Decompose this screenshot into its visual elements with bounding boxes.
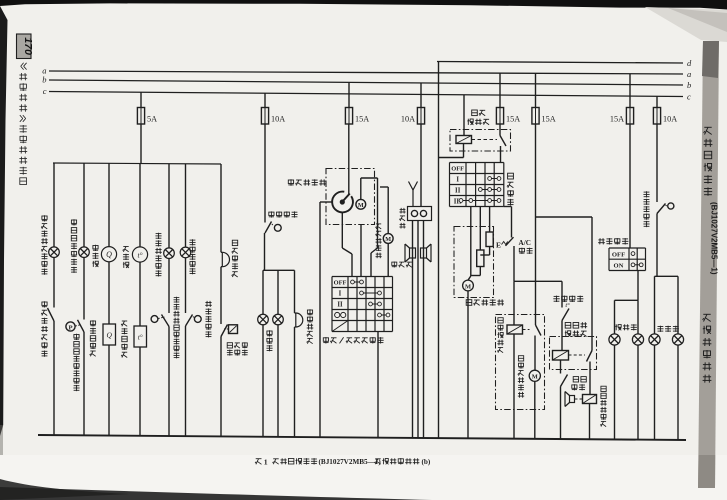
wire branch fuel gauge — [108, 163, 110, 246]
bottom page shadow — [0, 479, 130, 500]
svg-text:(BJ1027V2MB5—1): (BJ1027V2MB5—1) — [319, 458, 382, 466]
wire brake lamp 1 — [654, 276, 656, 334]
compressor relay link dashes — [569, 354, 586, 356]
sensor fuel sender 油量传感器 — [103, 324, 116, 345]
switch wiper/washer 刮水/喷水器开关 grid — [332, 276, 393, 278]
sidebar title 《汽车电路》整车电路专集 — [19, 63, 27, 185]
wire AC feed down to temperature switch — [561, 281, 563, 307]
wire fuse F3 to wiper motor — [348, 124, 350, 195]
wire wiper motor left tap to ground — [320, 201, 332, 203]
svg-text:10A: 10A — [663, 114, 677, 123]
wire heater grid to AC switch — [504, 206, 512, 208]
svg-text:M: M — [358, 202, 364, 209]
wire wiper motor outputs to switch — [341, 212, 343, 248]
svg-text:b: b — [687, 80, 691, 90]
top black page edge — [0, 0, 727, 10]
wire reverse lamp 2 — [277, 270, 279, 314]
svg-text:E: E — [496, 241, 501, 250]
svg-text:t°: t° — [137, 250, 142, 259]
lamp oil-water separator indicator 油水分离器指示灯 — [49, 247, 60, 258]
condenser relay link dashes — [523, 329, 530, 331]
wire brake switch to lamps tee — [656, 214, 658, 277]
svg-text:t°: t° — [138, 334, 143, 342]
wire fog lamp 2 — [637, 300, 639, 334]
bus line c — [49, 92, 683, 97]
wire bus c to fuse F1 — [140, 92, 142, 107]
svg-text:t°: t° — [565, 302, 570, 309]
lamp oil pressure low warning 油压过低报警灯 — [79, 247, 90, 258]
resistor R2 heater — [477, 250, 484, 267]
svg-text:15A: 15A — [542, 114, 556, 123]
svg-text:II: II — [455, 188, 461, 195]
svg-text:10A: 10A — [271, 114, 285, 123]
gauge fuel 油量表 — [101, 247, 116, 262]
wire bus b to fuse F3 — [348, 82, 350, 107]
wire bus a to fuse F5 — [499, 73, 501, 107]
heater relay coil — [456, 136, 472, 144]
condenser relay box 冷凝继电器 — [496, 315, 545, 410]
svg-text:OFF: OFF — [451, 166, 464, 173]
wiper motor box 刮水电动机 — [326, 169, 375, 225]
wire reverse lamp 1 — [262, 270, 264, 314]
wire branch vacuum alarm — [220, 164, 222, 252]
wire radio middle — [417, 221, 419, 438]
resistor R1 heater — [486, 232, 493, 247]
compressor clutch relay output box — [583, 395, 597, 404]
page number badge 170 — [17, 34, 32, 59]
sensor water temperature 水温传感器 — [134, 326, 147, 347]
switch hand brake 手制动开关 — [186, 315, 193, 327]
wire branch to compressor relay — [536, 216, 593, 218]
speaker 2 扬声器 — [421, 248, 427, 258]
fuse F3 15A — [345, 108, 352, 125]
bus line a — [49, 71, 683, 74]
condenser relay coil — [507, 325, 523, 334]
speaker 1 扬声器 — [410, 248, 416, 258]
wire brake lamp 2 — [677, 276, 679, 334]
svg-text:c: c — [687, 91, 691, 101]
wire fog lamp 1 — [614, 300, 616, 334]
svg-text:5A: 5A — [147, 114, 157, 123]
heater motor box 暖风电动机 — [454, 227, 494, 298]
lamp front fog 2 前雾灯 — [632, 334, 643, 345]
svg-text:I: I — [456, 177, 459, 184]
svg-text:A/C: A/C — [519, 239, 531, 247]
svg-text:10A: 10A — [401, 114, 415, 123]
wire reverse feed tee — [264, 233, 266, 270]
wire bus c to fuse F2 — [264, 93, 266, 107]
fuse F4 10A — [417, 108, 424, 125]
wire bus a to fuse F6 — [535, 73, 537, 107]
spine vertical text 北汽福田奥铃 — [704, 127, 713, 196]
svg-text:I: I — [339, 291, 342, 298]
lamp brake 2 制动灯 — [672, 334, 683, 345]
antenna — [412, 189, 414, 207]
svg-text:170: 170 — [22, 37, 34, 55]
left distribution rail — [53, 163, 221, 164]
svg-text:II: II — [337, 302, 343, 309]
wire fog switch output tee — [637, 271, 639, 301]
svg-text:ON: ON — [614, 263, 624, 270]
heater relay link dashes — [472, 139, 498, 141]
wire bus d drop — [438, 62, 440, 439]
svg-text:15A: 15A — [355, 114, 369, 123]
fuse F6 15A — [532, 108, 539, 125]
compressor relay box 压缩泵继电器 — [550, 337, 597, 370]
wire wiper switch output to ground — [377, 332, 379, 438]
switch brake light 制动灯开关 — [657, 204, 666, 214]
switch vacuum alarm 真空报警开关 — [221, 325, 228, 337]
lamp front fog 1 前雾灯 — [609, 334, 620, 345]
wire branch oil-water separator — [53, 163, 55, 247]
wire fuse F6 down to condenser contact — [535, 124, 537, 325]
lamp brake fluid indicator 制动液指示灯 — [164, 248, 175, 259]
wire heater motor ground — [467, 291, 469, 438]
lamp brake 1 制动灯 — [649, 334, 660, 345]
fuse F8 10A — [653, 108, 660, 125]
compressor relay coil — [553, 351, 569, 361]
bus line d — [437, 62, 683, 64]
buzzer vacuum alarm 真空报警器 — [221, 251, 222, 253]
svg-text:M: M — [532, 374, 538, 381]
switch brake fluid level 制动液液面报警开关 — [151, 316, 158, 323]
svg-text:(b): (b) — [422, 458, 431, 466]
bus line b — [49, 80, 683, 85]
wire reverse buzzer — [294, 270, 296, 313]
svg-text:a: a — [687, 69, 691, 79]
wire radio to speaker 2 — [423, 221, 425, 439]
svg-text:Q: Q — [106, 250, 112, 259]
wire condenser motor ground — [534, 381, 536, 438]
wire AC to condenser coil — [513, 281, 515, 325]
fuse F2 10A — [261, 108, 268, 125]
wire fuse F2 to reverse switch — [264, 124, 266, 223]
wire fuse F8 to brake switch — [656, 124, 658, 202]
svg-text:P: P — [68, 324, 72, 331]
wire fuse F7 to fog switch — [629, 124, 631, 248]
wire clutch ground — [589, 404, 591, 440]
radio 收放机 — [408, 207, 432, 221]
heater switch contacts — [490, 178, 499, 180]
svg-text:b: b — [42, 75, 46, 85]
wire compressor coil to pressure switch — [560, 360, 562, 374]
compressor clutch 压缩机离合器 — [570, 396, 575, 403]
wire bus c to fuse F8 — [656, 96, 658, 107]
svg-text:Q: Q — [106, 331, 112, 340]
wire branch brake fluid — [168, 164, 170, 248]
wiper switch contacts — [353, 281, 362, 283]
heater relay contact — [499, 124, 501, 136]
motor M condenser 冷凝器电动机 — [529, 370, 540, 381]
lamp reverse light 2 倒车灯 — [273, 314, 284, 325]
svg-text:c: c — [43, 86, 47, 96]
wiper motor armature — [332, 192, 353, 213]
svg-text:OFF: OFF — [612, 251, 625, 258]
svg-text:OFF: OFF — [334, 280, 347, 287]
washer motor 喷水电动机 — [380, 186, 388, 188]
fuse F5 15A — [496, 108, 503, 125]
svg-text:1: 1 — [264, 457, 268, 466]
condenser relay contact — [536, 325, 542, 336]
wire branch parking brake — [185, 164, 187, 247]
compressor relay contact — [591, 217, 593, 351]
svg-text:M: M — [465, 283, 471, 290]
wire bus a to fuse F7 — [629, 74, 631, 108]
wire branch oil pressure — [83, 163, 85, 247]
right book spine band — [698, 41, 719, 488]
svg-text:15A: 15A — [506, 114, 520, 123]
wire fuse F1 to left rail — [140, 124, 142, 164]
ground rail — [38, 435, 686, 440]
gauge water temperature 水温表 — [132, 247, 147, 262]
wire branch temperature gauge — [139, 164, 141, 247]
lamp parking indicator 驻车指示灯 — [180, 247, 191, 258]
caption 图1 北汽福田奥铃(BJ1027V2MB5-1)载货汽车电路(b) — [255, 457, 431, 466]
wire bus b to fuse F4 — [420, 83, 422, 108]
svg-text:(BJ1027V2MB5—1): (BJ1027V2MB5—1) — [710, 202, 719, 275]
heater relay box 暖风继电器 — [450, 130, 511, 152]
wire radio to speaker 1 — [412, 221, 414, 438]
wire condenser coil ground — [513, 334, 515, 439]
switch oil-water separator 油水分离器开关 — [48, 308, 55, 321]
wire heater switch outputs — [470, 207, 472, 277]
switch oil pressure low warning 油压过低报警开关 with P sender — [66, 322, 75, 331]
motor M heater 暖风电动机 — [463, 280, 474, 291]
svg-text:M: M — [385, 236, 391, 243]
wire fuse F4 to radio — [420, 124, 422, 207]
left black page edge — [0, 6, 8, 436]
switch pressure 压力开关 — [561, 375, 568, 387]
fuse F1 5A — [137, 108, 144, 125]
wire AC switch output — [513, 246, 515, 281]
wire bus c to heater relay coil — [463, 95, 465, 136]
svg-text:15A: 15A — [610, 114, 624, 123]
switch heater 暖风开关 grid — [450, 162, 504, 164]
motor M wiper — [356, 199, 366, 209]
switch fog lamps 雾灯开关 grid — [609, 247, 646, 249]
lamp reverse light 1 倒车灯 — [258, 314, 269, 325]
spine vertical text 载货汽车电路 — [703, 314, 712, 382]
fuse F7 15A — [626, 108, 633, 125]
switch reverse 倒车开关 — [265, 222, 272, 234]
buzzer reverse 倒车蜂鸣器 — [295, 312, 296, 314]
wire heater relay coil ground to d-line — [463, 144, 465, 158]
